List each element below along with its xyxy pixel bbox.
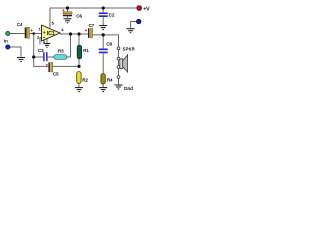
speaker SPKR driver rectangle bbox=[120, 59, 123, 69]
+V terminal bbox=[137, 6, 142, 11]
speaker terminal circle top bbox=[117, 47, 120, 50]
wire blue input terminal to its ground bbox=[10, 47, 21, 57]
svg-text:C3: C3 bbox=[38, 48, 44, 53]
wire op-amp pin 2 stub bbox=[40, 38, 42, 45]
wire R2 bottom to ground bbox=[78, 83, 80, 87]
wire C6 taps top rail bbox=[67, 8, 69, 12]
capacitor C5 plus mark bbox=[46, 64, 48, 66]
wire op-amp pin 5 up and +V top rail bbox=[50, 8, 137, 28]
speaker cone bbox=[123, 55, 128, 72]
svg-text:R4: R4 bbox=[107, 78, 113, 83]
capacitor C4 plus mark bbox=[30, 29, 32, 31]
blue aux terminal bbox=[137, 19, 141, 23]
wire R1 bottom to node bbox=[78, 59, 80, 67]
node junction bottom rail R2 bbox=[77, 65, 80, 68]
ground for C6 bbox=[64, 19, 72, 23]
svg-text:SPKR: SPKR bbox=[123, 47, 135, 52]
svg-text:C4: C4 bbox=[17, 22, 23, 27]
wire feedback rail from node to C3 bbox=[34, 56, 43, 58]
node junction top rail C6 bbox=[66, 6, 69, 9]
capacitor C2 plates bbox=[99, 12, 108, 17]
wire C8 bottom to R4 bbox=[102, 54, 104, 74]
node junction top rail C2 bbox=[102, 6, 105, 9]
wire R4 bottom to ground bbox=[102, 84, 104, 87]
svg-text:R2: R2 bbox=[82, 78, 88, 83]
wire blue aux terminal to its ground bbox=[131, 22, 137, 29]
svg-text:C8: C8 bbox=[106, 42, 112, 47]
capacitor C3 plates bbox=[43, 52, 48, 61]
resistor R3 body bbox=[54, 55, 67, 60]
wire op-amp output to C7 bbox=[60, 33, 88, 35]
svg-text:In: In bbox=[4, 39, 8, 45]
speaker terminal circle lower bbox=[117, 66, 120, 69]
ground for C2 bbox=[99, 26, 107, 30]
ground for speaker bbox=[115, 85, 123, 89]
ground for op-amp pin 3 bbox=[44, 44, 51, 48]
wire C7 to speaker corner bbox=[93, 35, 119, 47]
speaker terminal circle bottom bbox=[117, 76, 120, 79]
wire op-amp pin 3 down to ground bbox=[46, 39, 48, 43]
node junction output rail R1 branch bbox=[77, 32, 80, 35]
svg-text:R1: R1 bbox=[83, 48, 89, 53]
wire node continues down to bottom-left rail corner bbox=[34, 57, 49, 66]
resistor R1 body bbox=[77, 45, 81, 59]
svg-text:C6: C6 bbox=[76, 13, 82, 18]
ground for blue input bbox=[17, 58, 25, 62]
capacitor C6 polarized plates bbox=[63, 12, 72, 17]
resistor R4 body bbox=[101, 74, 105, 84]
speaker terminal circle upper bbox=[117, 57, 120, 60]
svg-text:C7: C7 bbox=[89, 23, 95, 28]
node junction input to feedback bbox=[32, 32, 35, 35]
svg-text:IC1: IC1 bbox=[47, 31, 55, 37]
capacitor C7 plus mark bbox=[85, 29, 87, 31]
node junction output rail R3 branch bbox=[69, 32, 72, 35]
capacitor C7 polarized plates bbox=[88, 28, 93, 38]
wire speaker vertical through terminals to ground bbox=[118, 47, 120, 84]
capacitor C5 polarized plates bbox=[48, 62, 52, 72]
resistor R2 body bbox=[77, 72, 81, 84]
ground for blue aux terminal bbox=[127, 29, 135, 33]
wire C3 to R3 bbox=[48, 56, 54, 58]
wire C2 taps top rail bbox=[102, 8, 104, 12]
wire C2 bottom to ground bbox=[102, 17, 104, 25]
wire C8 branch from output node down bbox=[102, 35, 104, 49]
wire input signal from green terminal to C4 bbox=[10, 33, 25, 35]
svg-text:C2: C2 bbox=[109, 12, 115, 17]
ground for R2 bbox=[75, 88, 83, 92]
wire R1 branch vertical output rail to bottom node bbox=[78, 34, 80, 45]
svg-text:+V: +V bbox=[143, 6, 150, 12]
wire C4 to op-amp +input bbox=[29, 33, 41, 35]
ground for R4 bbox=[99, 88, 107, 92]
op-amp minus input mark bbox=[43, 37, 45, 39]
svg-text:5: 5 bbox=[52, 21, 55, 26]
wire bottom-left rail C5 to R2 node bbox=[53, 65, 79, 67]
green input terminal bbox=[6, 31, 10, 35]
capacitor C4 polarized plates bbox=[25, 27, 30, 38]
blue input terminal bbox=[6, 45, 10, 49]
node junction feedback rail bbox=[32, 55, 35, 58]
wire feedback vertical from input node down bbox=[33, 34, 35, 58]
svg-text:Gnd: Gnd bbox=[124, 86, 133, 92]
op-amp plus input mark bbox=[43, 31, 45, 33]
wire C6 bottom to ground bbox=[67, 16, 69, 18]
wire R3 right end up to output rail bbox=[67, 34, 71, 57]
svg-text:R3: R3 bbox=[58, 49, 64, 54]
node junction output rail C8 branch bbox=[102, 33, 105, 36]
op-amp U1 triangle body bbox=[42, 25, 61, 41]
capacitor C8 plates bbox=[99, 49, 108, 54]
svg-text:C5: C5 bbox=[53, 72, 59, 77]
svg-text:4: 4 bbox=[61, 27, 64, 32]
capacitor C6 plus mark bbox=[62, 9, 64, 11]
